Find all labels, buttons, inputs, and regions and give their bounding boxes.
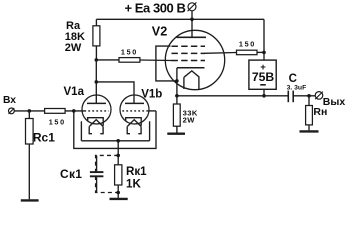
svg-text:2W: 2W bbox=[183, 116, 196, 125]
junction input x Rc1 bbox=[28, 109, 32, 113]
V1b grid lead bbox=[147, 110, 156, 112]
wire plate bus to V1b bbox=[96, 82, 134, 104]
dashed box Ck1 bbox=[96, 155, 119, 192]
V1b cathode bbox=[126, 118, 142, 126]
V1b grid dotted bbox=[122, 110, 146, 112]
junction bracket x cathode bbox=[175, 79, 179, 83]
V1a grid dotted bbox=[84, 110, 108, 112]
wire V2 cathode drop bbox=[176, 68, 178, 96]
wire to 150 bbox=[96, 59, 119, 61]
junction grid tie bbox=[72, 109, 76, 113]
wire g3 tie bracket bbox=[156, 46, 177, 81]
resistor 33K bbox=[173, 104, 180, 126]
wire right vertical from top bus bbox=[263, 19, 265, 52]
capacitor C plates bbox=[287, 91, 289, 103]
svg-text:150: 150 bbox=[239, 39, 256, 48]
V2 grid g3 dashes bbox=[172, 45, 206, 47]
resistor 150 grid stopper bbox=[119, 58, 140, 63]
label Ra 18K 2W bbox=[65, 20, 85, 54]
V1a heater legs bbox=[89, 126, 92, 133]
wire 150 to junction bbox=[257, 51, 264, 53]
svg-text:3. 3uF: 3. 3uF bbox=[287, 85, 307, 92]
wire g2 to 150 bbox=[205, 52, 237, 55]
svg-text:V1a: V1a bbox=[64, 86, 85, 98]
label Rk1 1K bbox=[126, 165, 147, 190]
resistor Rc1 bbox=[26, 119, 34, 145]
svg-text:150: 150 bbox=[49, 117, 66, 126]
svg-text:Ск1: Ск1 bbox=[60, 167, 82, 181]
wire input bbox=[14, 110, 44, 112]
resistor Rn bbox=[306, 106, 313, 125]
wire grid tie loop bbox=[74, 111, 156, 148]
junction stabilizer x output line bbox=[262, 94, 266, 98]
capacitor Ck1 plates bbox=[90, 171, 104, 173]
wire cap to terminal bbox=[294, 95, 316, 97]
terminal Vx bbox=[9, 108, 15, 114]
stabilizer 75V box bbox=[249, 60, 276, 89]
wire Rc1 top bbox=[28, 111, 30, 119]
wire cathode bus bbox=[81, 140, 149, 142]
wire cathode network drop bbox=[117, 141, 119, 165]
label 33K 2W bbox=[183, 109, 198, 125]
V2 cathode bar bbox=[177, 67, 205, 69]
wire output line bbox=[177, 95, 288, 97]
V2 heater bbox=[184, 71, 199, 77]
wire 150 to V1a grid bbox=[65, 110, 84, 112]
svg-text:1K: 1K bbox=[126, 177, 141, 190]
junction Rk1 bottom bbox=[116, 191, 120, 195]
wire Rn top bbox=[308, 96, 310, 106]
junction V1 plate bus bbox=[95, 80, 99, 84]
junction screen node bbox=[262, 51, 266, 55]
label minus bbox=[260, 84, 266, 86]
svg-text:Rн: Rн bbox=[313, 106, 327, 118]
resistor 150 screen bbox=[237, 50, 258, 55]
wire top bus bbox=[96, 18, 264, 20]
junction top bus x plate lead bbox=[190, 18, 194, 22]
svg-text:Вх: Вх bbox=[3, 95, 16, 106]
wire to stabilizer top bbox=[263, 52, 265, 60]
capacitor Ck1 bottom lead bbox=[96, 177, 98, 192]
tube V1a envelope bbox=[82, 95, 111, 124]
resistor Rk1 bbox=[115, 165, 122, 185]
V2 heater legs bbox=[183, 77, 185, 89]
wire Rn bottom bbox=[308, 125, 310, 130]
wire Ra top lead bbox=[95, 19, 97, 26]
V1a heater bbox=[89, 120, 103, 127]
wire V1b cathode drop bbox=[149, 121, 151, 141]
tube V1b envelope bbox=[120, 95, 149, 124]
wire V1 plate drop bbox=[95, 60, 97, 104]
svg-text:2W: 2W bbox=[65, 42, 82, 54]
capacitor Ck1 top lead bbox=[96, 155, 98, 171]
wire Rc1 bottom bbox=[28, 144, 30, 199]
junction cathode bus bbox=[116, 139, 120, 143]
V2 anode bar bbox=[177, 36, 207, 38]
V2 grid g2 dashes bbox=[172, 52, 206, 54]
V2 grid g1 dashes bbox=[172, 60, 206, 62]
resistor 150 input bbox=[45, 109, 66, 114]
junction Ra / grid stopper / V1 plates bbox=[95, 58, 99, 62]
wire Rk1 bottom bbox=[117, 185, 119, 198]
wire V1a cathode drop bbox=[80, 121, 82, 141]
svg-text:75В: 75В bbox=[252, 70, 275, 84]
V1b heater legs bbox=[127, 126, 130, 133]
ground Rk1 bbox=[110, 198, 128, 200]
svg-text:+ Ea 300 В: + Ea 300 В bbox=[125, 1, 186, 16]
junction cathode x output bbox=[175, 94, 179, 98]
wire stabilizer bottom bbox=[263, 89, 265, 96]
terminal Ea bbox=[188, 2, 197, 11]
ground Rc1 bbox=[21, 199, 39, 201]
junction dashed box top bbox=[116, 154, 120, 158]
V1b heater bbox=[127, 120, 141, 127]
junction output node bbox=[307, 94, 311, 98]
V1a cathode bbox=[88, 118, 104, 126]
wire Ra bottom lead bbox=[95, 46, 97, 60]
svg-text:150: 150 bbox=[121, 48, 138, 57]
svg-text:C: C bbox=[289, 73, 297, 85]
resistor Ra bbox=[93, 26, 100, 46]
ground Rn bbox=[300, 130, 319, 132]
wire 33K top bbox=[176, 96, 178, 104]
svg-text:Rк1: Rк1 bbox=[126, 165, 147, 178]
terminal Vyh bbox=[315, 92, 323, 100]
tube V2 envelope bbox=[165, 30, 224, 89]
ground 33K bbox=[167, 132, 185, 134]
V1a anode bar bbox=[87, 102, 106, 104]
svg-text:V2: V2 bbox=[152, 25, 167, 39]
wire Ea terminal to V2 plate bbox=[191, 10, 193, 37]
V1b anode bar bbox=[125, 102, 144, 104]
wire 150 to V2 g1 bbox=[140, 59, 172, 62]
svg-text:Rc1: Rc1 bbox=[33, 131, 55, 145]
wire 33K bottom bbox=[176, 126, 178, 132]
